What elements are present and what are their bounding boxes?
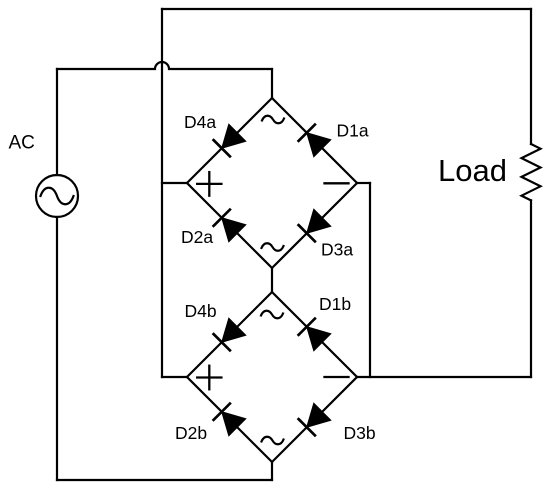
wire stub bridge B plus (162, 376, 187, 378)
diode D3b (299, 403, 331, 435)
wire AC to bridge A top vertex (271, 69, 273, 98)
svg-text:D1b: D1b (319, 294, 351, 314)
svg-text:Load: Load (438, 153, 507, 188)
diode D2a (214, 210, 246, 242)
wire bridge B lower-left edge (187, 377, 272, 462)
wire mid vertical negative link (369, 183, 371, 377)
wire AC source top vertical (56, 69, 58, 175)
wire top positive bus (162, 8, 531, 10)
diode D4b (214, 318, 246, 350)
svg-text:D4a: D4a (184, 112, 216, 132)
wire bottom horizontal (57, 479, 272, 481)
resistor Load (522, 144, 541, 200)
wire bridge B upper-left edge (187, 292, 272, 377)
diode D4a (214, 124, 246, 156)
svg-text:D3a: D3a (321, 240, 353, 260)
wire bridge A to bridge B link (271, 268, 273, 292)
svg-text:AC: AC (9, 133, 35, 154)
node minus bridge A (325, 182, 349, 184)
wire left vertical positive bus (161, 9, 163, 377)
node plus bridge A (197, 172, 221, 196)
wire bridge A upper-right edge (272, 98, 357, 183)
svg-text:D3b: D3b (344, 423, 376, 443)
wire to bridge B bottom vertex (271, 462, 273, 480)
svg-text:D2a: D2a (181, 227, 213, 247)
wire bridge B upper-right edge (272, 292, 357, 377)
wire AC top horizontal with hop (57, 62, 272, 69)
wire right vertical to load top (530, 9, 532, 144)
wire bridge A lower-right edge (272, 183, 357, 268)
svg-text:D2b: D2b (175, 423, 207, 443)
wire bridge A upper-left edge (187, 98, 272, 183)
diode D2b (214, 404, 246, 436)
node minus bridge B (325, 376, 349, 378)
node plus bridge B (197, 366, 221, 390)
diode D1b (299, 319, 331, 351)
diode D3a (299, 209, 331, 241)
wire bridge A lower-left edge (187, 183, 272, 268)
node AC-bottom bridge A (262, 243, 284, 251)
wire stub bridge A plus (162, 182, 187, 184)
svg-text:D4b: D4b (185, 301, 217, 321)
wire bridge B lower-right edge (272, 377, 357, 462)
wire bottom-right negative bus (357, 376, 531, 378)
wire load bottom vertical (530, 200, 532, 377)
node AC-top bridge A (262, 116, 284, 124)
svg-text:D1a: D1a (337, 121, 369, 141)
node AC-bottom bridge B (262, 437, 284, 445)
AC source V1 (36, 175, 78, 217)
node AC-top bridge B (261, 311, 283, 319)
diode D1a (299, 125, 331, 157)
wire stub bridge A minus (357, 182, 370, 184)
wire AC source bottom vertical (56, 217, 58, 480)
